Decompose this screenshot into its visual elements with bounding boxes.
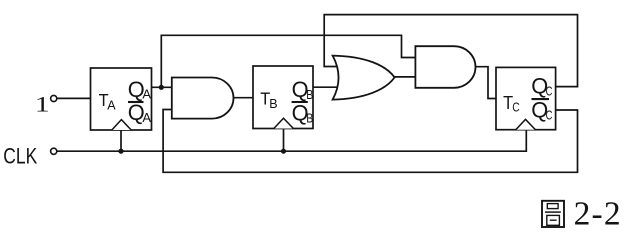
- svg-text:C: C: [512, 100, 520, 114]
- svg-text:B: B: [269, 97, 277, 111]
- svg-text:C: C: [546, 83, 553, 98]
- svg-text:CLK: CLK: [3, 144, 37, 169]
- svg-text:A: A: [142, 110, 151, 125]
- svg-text:C: C: [546, 108, 553, 123]
- svg-text:B: B: [306, 110, 313, 125]
- svg-text:1: 1: [35, 92, 50, 117]
- svg-text:2-2: 2-2: [574, 196, 621, 233]
- svg-text:A: A: [107, 98, 116, 112]
